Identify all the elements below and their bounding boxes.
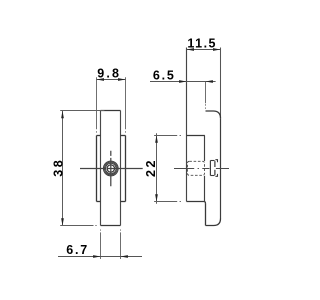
svg-text:6.7: 6.7 bbox=[66, 243, 89, 257]
rib right edge bbox=[120, 111, 122, 226]
dim 9.8 arrow left bbox=[97, 78, 105, 81]
rib bottom edge bbox=[101, 225, 121, 227]
clip top edge bbox=[210, 160, 214, 162]
hole circle inner bbox=[107, 165, 114, 172]
dim 6.7 extension left bbox=[100, 230, 102, 260]
side right edge lower bbox=[220, 118, 222, 218]
front vertical center line bbox=[110, 151, 112, 187]
dim 6.7 line bbox=[58, 256, 142, 258]
dim 6.7 arrow left bbox=[93, 255, 100, 258]
svg-text:9.8: 9.8 bbox=[97, 67, 121, 81]
groove bottom bracket bbox=[215, 174, 217, 176]
side lower-left vertical edge bbox=[205, 204, 207, 226]
hole circle ring 2 bbox=[104, 162, 117, 175]
dim 38 line bbox=[62, 111, 64, 226]
side internal back edge upper bbox=[204, 136, 206, 162]
dim 22 arrow top bbox=[155, 135, 158, 143]
dim 6.5 extension mid bbox=[205, 81, 207, 108]
dim 38 extension top bbox=[60, 110, 104, 112]
dim 38 arrow bottom bbox=[61, 218, 64, 226]
dim 9.8 extension left bbox=[96, 77, 98, 132]
dim 9.8 arrow right bbox=[118, 78, 126, 81]
dim 22 extension top bbox=[154, 135, 181, 137]
svg-text:38: 38 bbox=[52, 158, 66, 177]
dim 22 extension bottom bbox=[154, 201, 181, 203]
hidden hole dashed rect bbox=[188, 161, 205, 175]
block bottom-right step bbox=[121, 201, 126, 203]
dim 11.5 line bbox=[187, 49, 221, 51]
side left edge bbox=[186, 48, 188, 202]
block top-right step bbox=[121, 135, 126, 137]
rib left edge bbox=[100, 111, 102, 226]
side right edge bbox=[220, 48, 222, 119]
clip bottom edge bbox=[210, 175, 214, 177]
block top-left step bbox=[97, 135, 101, 137]
hole circle ring 1 bbox=[103, 161, 118, 176]
side bottom step edge bbox=[187, 202, 206, 204]
block right edge bbox=[125, 136, 127, 202]
clip inner right lower bbox=[214, 170, 216, 175]
dim 6.5 arrow left bbox=[179, 80, 186, 83]
hole circle ring 3 bbox=[106, 163, 117, 174]
svg-text:22: 22 bbox=[144, 158, 158, 177]
dim 38 extension bottom bbox=[60, 225, 96, 227]
dim 22 arrow bottom bbox=[155, 194, 158, 202]
side horizontal center line bbox=[174, 168, 229, 170]
dim 6.5 arrow right bbox=[206, 80, 213, 83]
side bulge top edge with fillet bbox=[206, 111, 221, 118]
dim 6.7 arrow right bbox=[121, 255, 128, 258]
block bottom-left step bbox=[97, 201, 101, 203]
dim 6.5 line bbox=[150, 81, 216, 83]
clip inner right upper bbox=[214, 161, 216, 167]
side internal back edge lower bbox=[204, 176, 206, 202]
dim 9.8 extension right bbox=[125, 77, 127, 132]
dim 9.8 line bbox=[97, 79, 126, 81]
side bottom edge with fillet bbox=[206, 219, 221, 226]
clip left bar bbox=[209, 161, 211, 176]
dim 11.5 arrow left bbox=[187, 48, 195, 51]
rib top edge bbox=[101, 110, 121, 112]
dim 11.5 arrow right bbox=[213, 48, 221, 51]
front horizontal center line bbox=[80, 168, 143, 170]
dim 38 arrow top bbox=[61, 111, 64, 119]
groove top bracket bbox=[215, 160, 217, 163]
svg-text:11.5: 11.5 bbox=[187, 37, 217, 51]
side top step edge bbox=[187, 135, 205, 137]
svg-text:6.5: 6.5 bbox=[153, 69, 176, 83]
dim 6.7 extension right bbox=[120, 230, 122, 260]
dim 22 line bbox=[156, 133, 158, 204]
block left edge bbox=[96, 136, 98, 202]
